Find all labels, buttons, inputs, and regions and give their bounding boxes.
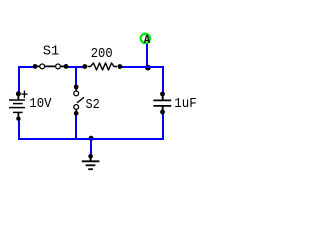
svg-text:1uF: 1uF — [174, 97, 197, 112]
svg-text:A: A — [144, 34, 150, 47]
svg-text:S1: S1 — [43, 45, 60, 60]
svg-text:200: 200 — [91, 47, 113, 62]
svg-text:10V: 10V — [29, 97, 52, 112]
svg-text:S2: S2 — [86, 98, 100, 113]
